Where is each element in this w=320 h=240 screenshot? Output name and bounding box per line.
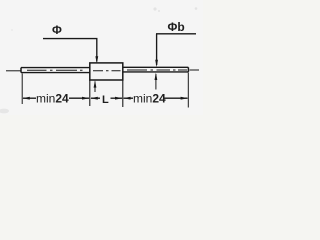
dimension line L (left segment) (91, 97, 100, 99)
centerline right overhang (190, 69, 200, 71)
svg-text:min24: min24 (36, 92, 69, 106)
faint scan speckles (0, 7, 197, 113)
arrowhead phi-b top (points down at lead top) (155, 60, 158, 67)
dimension line left min24 (left segment) (23, 97, 36, 99)
arrowhead min24 right at body (points left) (123, 97, 131, 100)
centerline left overhang (6, 70, 21, 72)
extension line at left lead end (21, 74, 23, 105)
extension line from body right edge (122, 80, 124, 107)
centerline dash-dot through left lead (27, 69, 83, 71)
phi-b leader vertical (156, 34, 158, 65)
phi-b lower arrow tail (155, 74, 157, 90)
component body (90, 63, 123, 80)
left lead end cap (20, 68, 22, 73)
arrowhead phi top (points down at body top) (95, 56, 98, 63)
extension line from body left edge (89, 80, 91, 106)
arrowhead L left (points left) (90, 97, 98, 100)
right lead top (123, 66, 188, 68)
arrowhead L right (points right) (115, 97, 123, 100)
extension line at right lead end (187, 73, 189, 108)
arrowhead min24 right end (points right) (181, 97, 189, 100)
centerline dash-dot through body (93, 70, 121, 72)
phi lower arrow tail (94, 82, 96, 93)
right lead bottom (123, 71, 188, 73)
paper background (0, 0, 203, 115)
dimension line left min24 (right segment) (69, 97, 89, 99)
svg-text:L: L (102, 94, 109, 106)
svg-text:min24: min24 (133, 92, 166, 106)
arrowhead phi bottom (points up at body bottom) (94, 80, 97, 87)
dimension line right min24 (left segment) (124, 97, 133, 99)
arrowhead min24 left at body (points right) (82, 97, 90, 100)
arrowhead min24 left end (points left) (22, 97, 30, 100)
right lead end cap (187, 67, 189, 72)
dimension line L (right segment) (111, 97, 123, 99)
left lead top (21, 67, 90, 69)
arrowhead phi-b bottom (points up at lead bottom) (155, 73, 158, 80)
centerline dash-dot through right lead (127, 69, 187, 71)
svg-text:Φb: Φb (168, 20, 185, 34)
left lead bottom (21, 72, 90, 74)
svg-text:Φ: Φ (52, 23, 62, 37)
phi leader line (43, 39, 97, 62)
dimension line right min24 (right segment) (163, 97, 188, 99)
phi-b leader line (156, 33, 196, 35)
